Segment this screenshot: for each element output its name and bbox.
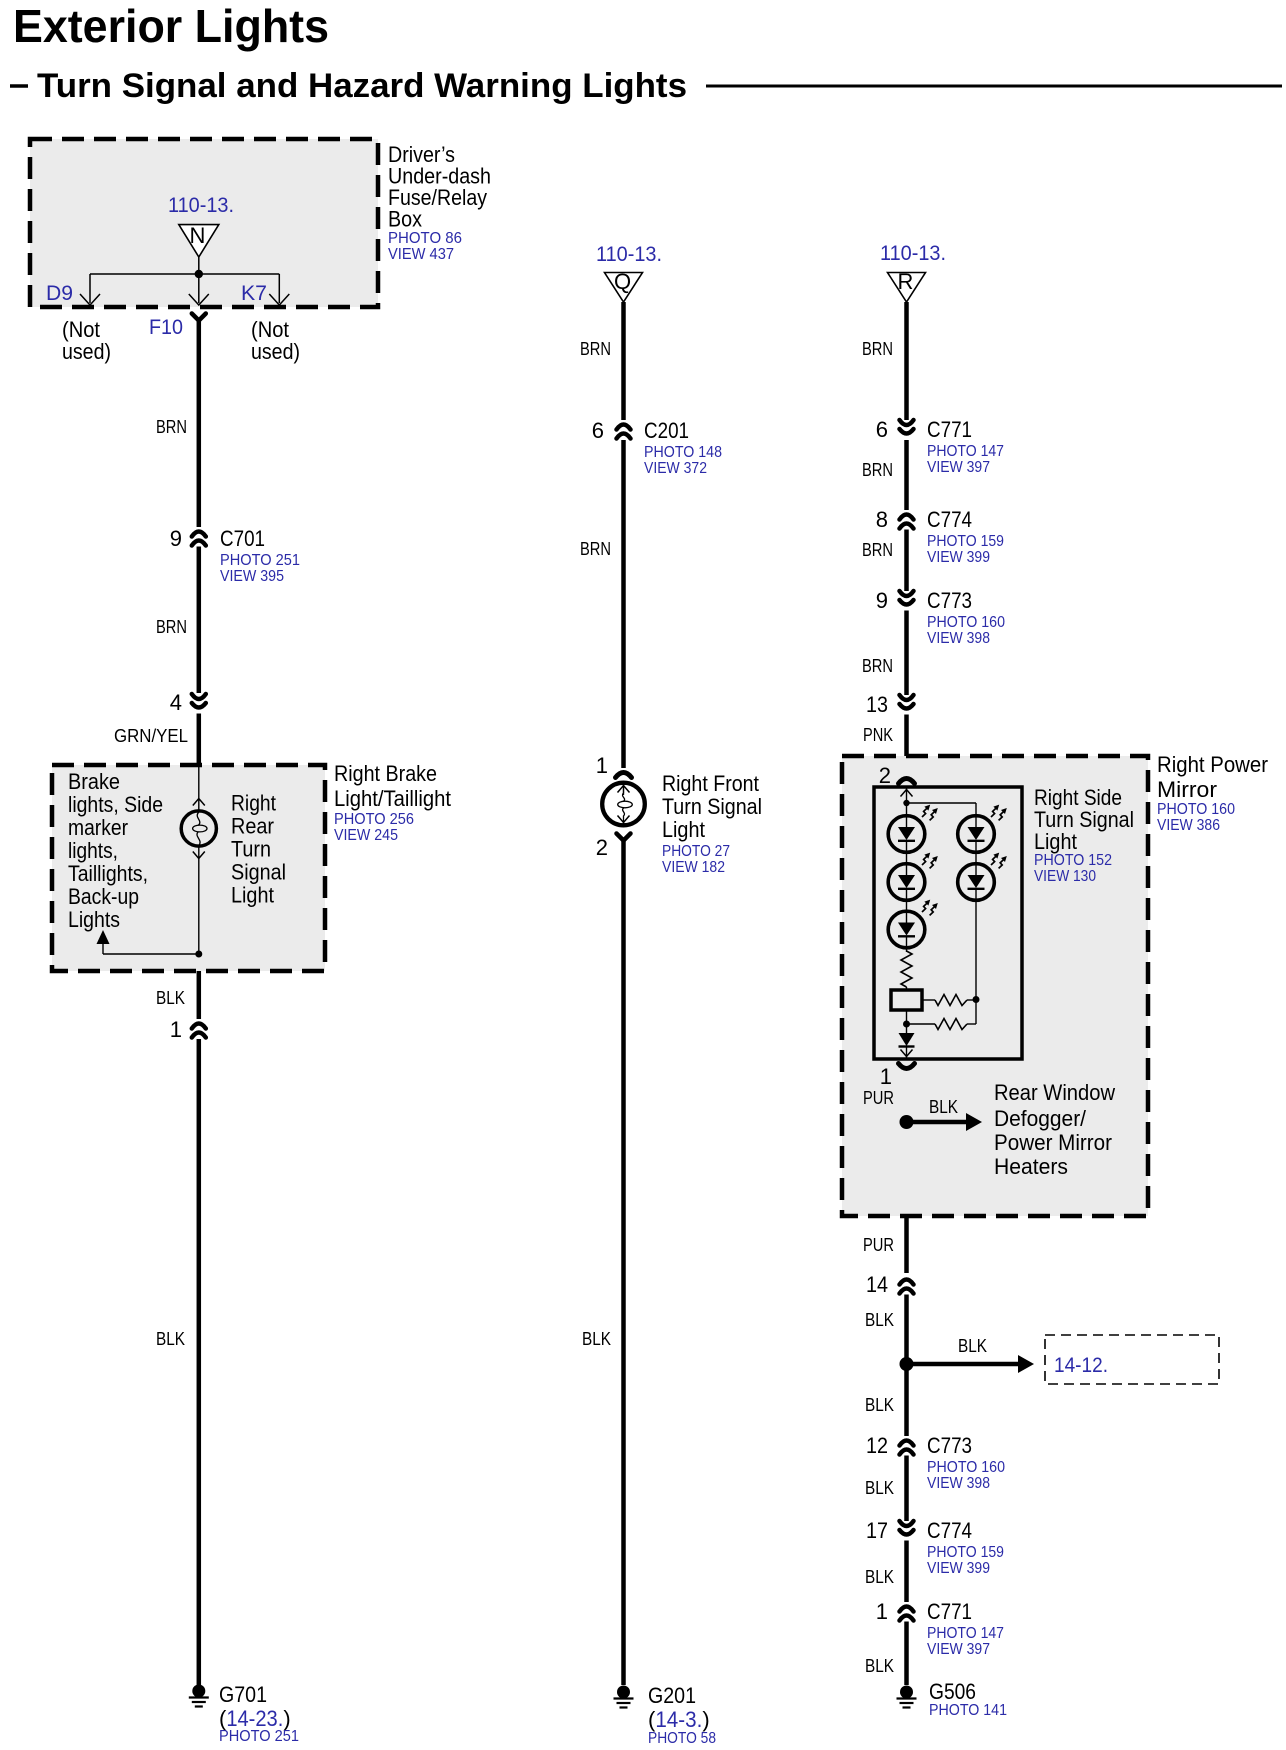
svg-text:VIEW 386: VIEW 386: [1157, 817, 1220, 834]
svg-text:GRN/YEL: GRN/YEL: [114, 726, 188, 746]
svg-text:1: 1: [596, 753, 608, 778]
svg-text:Power Mirror: Power Mirror: [994, 1130, 1112, 1155]
svg-text:BLK: BLK: [156, 1329, 185, 1349]
svg-text:R: R: [898, 269, 914, 294]
svg-text:BRN: BRN: [580, 539, 611, 559]
svg-text:14-12.: 14-12.: [1054, 1354, 1108, 1377]
svg-text:Turn Signal and Hazard Warning: Turn Signal and Hazard Warning Lights: [37, 67, 687, 105]
svg-text:BRN: BRN: [580, 339, 611, 359]
svg-text:PHOTO 251: PHOTO 251: [219, 1728, 299, 1745]
svg-text:110-13.: 110-13.: [168, 194, 234, 217]
svg-text:BRN: BRN: [156, 617, 187, 637]
svg-text:9: 9: [170, 526, 182, 551]
svg-text:PHOTO 160: PHOTO 160: [927, 1459, 1005, 1476]
svg-text:2: 2: [596, 835, 608, 860]
svg-text:C773: C773: [927, 1433, 972, 1458]
svg-text:BRN: BRN: [862, 460, 893, 480]
svg-text:C771: C771: [927, 417, 972, 442]
svg-text:13: 13: [866, 692, 888, 717]
svg-text:6: 6: [592, 418, 604, 443]
svg-text:C774: C774: [927, 507, 972, 532]
svg-text:Heaters: Heaters: [994, 1154, 1068, 1179]
svg-text:Back-up: Back-up: [68, 884, 139, 909]
svg-text:G201: G201: [648, 1683, 696, 1708]
svg-text:PUR: PUR: [863, 1088, 894, 1108]
svg-text:PHOTO 160: PHOTO 160: [1157, 801, 1235, 818]
svg-text:BRN: BRN: [862, 339, 893, 359]
svg-text:C774: C774: [927, 1518, 972, 1543]
svg-text:BLK: BLK: [929, 1097, 958, 1117]
svg-text:PHOTO 141: PHOTO 141: [929, 1702, 1007, 1719]
svg-text:Mirror: Mirror: [1157, 777, 1217, 802]
svg-text:Taillights,: Taillights,: [68, 861, 148, 886]
svg-text:G701: G701: [219, 1682, 267, 1707]
svg-text:D9: D9: [46, 282, 73, 305]
svg-text:17: 17: [866, 1518, 888, 1543]
svg-text:VIEW 182: VIEW 182: [662, 859, 725, 876]
svg-text:PHOTO 148: PHOTO 148: [644, 444, 722, 461]
svg-text:110-13.: 110-13.: [880, 242, 946, 265]
svg-text:BRN: BRN: [862, 656, 893, 676]
svg-text:Light: Light: [1034, 829, 1077, 854]
svg-text:VIEW 397: VIEW 397: [927, 459, 990, 476]
svg-text:PHOTO 58: PHOTO 58: [648, 1730, 716, 1747]
svg-text:used): used): [62, 339, 111, 364]
svg-text:C773: C773: [927, 588, 972, 613]
svg-text:9: 9: [876, 588, 888, 613]
svg-text:BLK: BLK: [865, 1656, 894, 1676]
svg-text:2: 2: [879, 763, 891, 788]
svg-text:Signal: Signal: [231, 860, 286, 885]
svg-text:C771: C771: [927, 1599, 972, 1624]
svg-text:VIEW 399: VIEW 399: [927, 1560, 990, 1577]
svg-text:110-13.: 110-13.: [596, 243, 662, 266]
svg-text:PHOTO 86: PHOTO 86: [388, 230, 462, 247]
svg-text:PHOTO 251: PHOTO 251: [220, 552, 300, 569]
svg-text:BLK: BLK: [865, 1478, 894, 1498]
svg-text:Rear: Rear: [231, 814, 274, 839]
svg-text:Box: Box: [388, 207, 422, 232]
svg-text:4: 4: [170, 690, 182, 715]
svg-text:PHOTO 147: PHOTO 147: [927, 443, 1004, 460]
svg-text:K7: K7: [241, 282, 267, 305]
svg-text:Defogger/: Defogger/: [994, 1106, 1087, 1131]
svg-text:Exterior Lights: Exterior Lights: [13, 0, 329, 52]
svg-text:PUR: PUR: [863, 1235, 894, 1255]
svg-text:N: N: [190, 223, 206, 248]
svg-text:BLK: BLK: [582, 1329, 611, 1349]
svg-text:VIEW 399: VIEW 399: [927, 549, 990, 566]
svg-text:Brake: Brake: [68, 769, 120, 794]
svg-text:PHOTO 159: PHOTO 159: [927, 1544, 1004, 1561]
svg-text:PHOTO 160: PHOTO 160: [927, 614, 1005, 631]
svg-text:Right: Right: [231, 791, 276, 816]
svg-text:Right Front: Right Front: [662, 771, 759, 796]
svg-text:VIEW 398: VIEW 398: [927, 1475, 990, 1492]
svg-text:PHOTO 147: PHOTO 147: [927, 1625, 1004, 1642]
svg-text:BRN: BRN: [156, 417, 187, 437]
svg-text:PHOTO 256: PHOTO 256: [334, 811, 414, 828]
svg-text:BLK: BLK: [156, 988, 185, 1008]
svg-text:1: 1: [170, 1017, 182, 1042]
svg-text:Q: Q: [614, 269, 631, 294]
svg-text:8: 8: [876, 507, 888, 532]
svg-text:Right Power: Right Power: [1157, 752, 1268, 777]
svg-text:BLK: BLK: [865, 1310, 894, 1330]
svg-text:PHOTO 152: PHOTO 152: [1034, 852, 1112, 869]
svg-text:G506: G506: [929, 1679, 976, 1704]
svg-text:F10: F10: [149, 316, 183, 339]
svg-text:VIEW 397: VIEW 397: [927, 1641, 990, 1658]
svg-text:used): used): [251, 339, 300, 364]
svg-text:VIEW 398: VIEW 398: [927, 630, 990, 647]
svg-text:PNK: PNK: [863, 725, 893, 745]
svg-text:BLK: BLK: [958, 1336, 987, 1356]
svg-text:Turn Signal: Turn Signal: [662, 794, 762, 819]
svg-text:1: 1: [876, 1599, 888, 1624]
svg-text:Rear Window: Rear Window: [994, 1080, 1115, 1105]
svg-text:BRN: BRN: [862, 540, 893, 560]
svg-text:Lights: Lights: [68, 907, 120, 932]
svg-text:C701: C701: [220, 526, 265, 551]
svg-text:6: 6: [876, 417, 888, 442]
svg-text:Light: Light: [231, 883, 274, 908]
svg-text:VIEW 130: VIEW 130: [1034, 868, 1096, 885]
svg-text:marker: marker: [68, 815, 128, 840]
svg-text:BLK: BLK: [865, 1567, 894, 1587]
svg-text:Right Brake: Right Brake: [334, 761, 437, 786]
svg-text:VIEW 395: VIEW 395: [220, 568, 284, 585]
svg-text:lights, Side: lights, Side: [68, 792, 163, 817]
svg-text:VIEW 245: VIEW 245: [334, 827, 398, 844]
svg-text:1: 1: [880, 1064, 892, 1089]
svg-text:VIEW 437: VIEW 437: [388, 246, 454, 263]
svg-text:PHOTO 159: PHOTO 159: [927, 533, 1004, 550]
svg-text:lights,: lights,: [68, 838, 118, 863]
svg-text:Light: Light: [662, 817, 705, 842]
svg-text:PHOTO 27: PHOTO 27: [662, 843, 730, 860]
svg-text:12: 12: [866, 1433, 888, 1458]
svg-text:VIEW 372: VIEW 372: [644, 460, 707, 477]
svg-text:Light/Taillight: Light/Taillight: [334, 786, 451, 811]
svg-text:C201: C201: [644, 418, 689, 443]
svg-text:(14-3.): (14-3.): [648, 1707, 710, 1732]
svg-text:Turn: Turn: [231, 837, 271, 862]
svg-text:BLK: BLK: [865, 1395, 894, 1415]
svg-text:14: 14: [866, 1272, 888, 1297]
